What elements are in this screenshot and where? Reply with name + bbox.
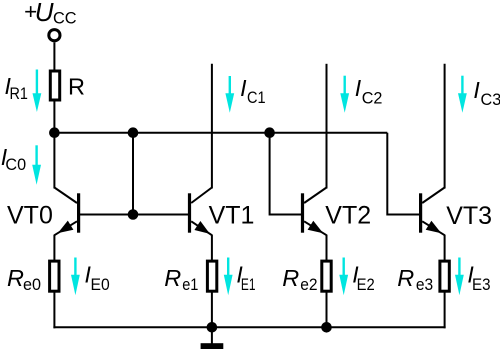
wire Re0 to bottom bus [53,292,55,329]
junction dot E (ground / bottom bus) [207,322,218,333]
current arrow IC0 [32,145,41,185]
svg-text:VT1: VT1 [209,202,255,230]
current arrow IR1 [33,70,42,113]
transistor VT1 base bar [188,193,191,232]
svg-text:E0: E0 [91,276,110,294]
current arrow IC3 [458,76,467,113]
svg-text:E3: E3 [472,276,491,294]
svg-text:I: I [473,77,480,103]
wire Re1 to bottom bus [211,292,213,328]
label IC0 [1,144,26,174]
resistor R [50,71,59,100]
junction dot A (R / top bus) [49,127,60,138]
label IE1 [236,261,255,294]
wire VT0 collector diagonal [54,188,77,204]
wire VT1 emitter to Re1 [211,235,213,261]
wire VT0 emitter diagonal [54,221,77,235]
wire VT2 emitter diagonal [304,221,326,235]
current arrow IE0 [71,258,80,296]
svg-text:e1: e1 [182,276,198,294]
svg-text:R1: R1 [10,85,28,103]
label Re2 [282,265,317,294]
transistor VT1 emitter arrow [194,221,210,234]
wire Re3 to bottom bus [444,292,446,329]
wire top bus [54,132,387,134]
svg-text:C1: C1 [247,89,266,107]
junction dot D (mid tie / base bus) [128,209,139,220]
label IE2 [352,261,374,294]
svg-text:R: R [164,265,181,291]
svg-text:VT0: VT0 [7,202,53,230]
transistor VT0 emitter arrow [58,221,74,234]
transistor VT2 base bar [301,193,304,232]
transistor VT0 base bar [77,193,80,232]
resistor Re3 [440,261,449,291]
label Re1 [164,265,198,294]
wire VT3 collector vertical [444,64,446,189]
resistor Re2 [322,261,331,291]
label Re0 [7,265,41,294]
wire VT2 collector diagonal [304,188,326,204]
label IE3 [467,261,490,294]
svg-text:CC: CC [53,9,77,27]
transistor VT3 base bar [419,193,422,232]
wire base bus VT0-VT1 [79,214,190,216]
label IC2 [355,75,383,108]
label IE0 [85,261,110,294]
label IR1 [5,73,28,103]
svg-text:e3: e3 [416,276,433,294]
svg-text:U: U [35,0,54,27]
current arrow IE3 [455,258,464,296]
svg-text:e2: e2 [300,276,317,294]
svg-text:e0: e0 [23,276,41,294]
wire VT2 collector vertical [326,64,328,189]
svg-text:R: R [397,265,414,291]
svg-text:C0: C0 [5,156,26,174]
svg-text:E2: E2 [357,276,375,294]
wire VT1 collector vertical [211,64,213,189]
wire VT3 emitter to Re3 [444,235,446,261]
wire VT3 collector diagonal [422,188,444,204]
terminal +Ucc [49,30,60,41]
svg-text:I: I [355,75,362,101]
wire bottom bus [53,326,445,328]
resistor Re0 [50,261,59,291]
wire VT3 emitter diagonal [422,221,444,235]
wire VT1 emitter diagonal [191,221,212,235]
svg-text:R: R [282,265,299,291]
wire R to VT0 collector [53,101,55,189]
svg-text:C3: C3 [481,91,500,109]
wire VT2 base drop [270,133,303,215]
transistor VT3 emitter arrow [426,221,442,234]
svg-text:R: R [68,74,85,100]
ground [201,343,224,349]
junction dot B (mid tie / top bus) [128,127,139,138]
current arrow IC2 [340,76,349,113]
current arrow IE2 [339,258,348,296]
svg-text:C2: C2 [362,90,383,108]
svg-text:VT3: VT3 [446,202,492,230]
current arrow IE1 [224,258,233,296]
svg-text:E1: E1 [241,276,256,294]
label IC1 [240,75,266,107]
wire VT3 base drop [387,133,420,215]
transistor VT2 emitter arrow [308,221,324,234]
junction dot C (VT2 base drop / top bus) [264,127,275,138]
label IC3 [473,77,500,109]
wire Re2 to bottom bus [326,292,328,328]
svg-text:R: R [7,265,24,291]
junction dot F (Re2 / bottom bus) [321,322,332,333]
wire VT1 collector diagonal [191,188,212,204]
label +Ucc [24,0,77,27]
current arrow IC1 [225,76,234,113]
svg-text:VT2: VT2 [325,202,371,230]
wire VT0 emitter to Re0 [53,235,55,261]
label Re3 [397,265,433,294]
wire mid tie column [132,133,134,215]
wire Ucc terminal to R [53,42,55,70]
wire VT2 emitter to Re2 [326,235,328,261]
wire ground stem [211,327,213,343]
resistor Re1 [207,261,216,291]
